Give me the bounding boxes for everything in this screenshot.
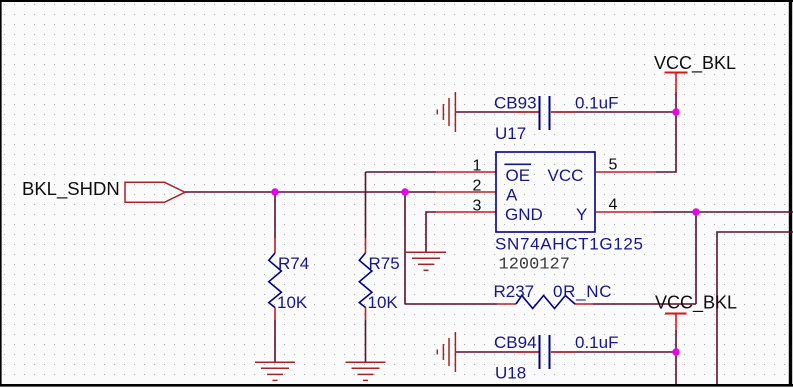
capacitor CB93 pins	[516, 111, 576, 113]
sheet border bottom	[0, 384, 793, 387]
pin 5	[596, 171, 656, 173]
svg-text:2: 2	[473, 178, 482, 195]
svg-text:4: 4	[609, 197, 618, 214]
svg-text:R237: R237	[494, 282, 535, 301]
junction node VCC/CB93	[672, 108, 679, 115]
resistor R75	[359, 253, 399, 312]
svg-text:1200127: 1200127	[499, 256, 570, 275]
wire R74 bottom	[274, 320, 276, 362]
svg-text:VCC_BKL: VCC_BKL	[654, 53, 736, 74]
wire CB94 right	[551, 351, 676, 353]
resistor R237 pins	[497, 303, 593, 305]
svg-text:OE: OE	[506, 166, 531, 185]
svg-text:0R_NC: 0R_NC	[553, 282, 612, 301]
resistor R74 pins	[274, 238, 276, 320]
capacitor CB94 pins	[516, 351, 576, 353]
ground at pin3	[406, 252, 446, 270]
pin 3	[436, 211, 496, 213]
svg-text:5: 5	[609, 157, 618, 174]
wire pin5 to VCC	[656, 92, 676, 172]
junction node Y/R237	[692, 208, 699, 215]
wire node drop to R237	[404, 192, 406, 304]
svg-text:SN74AHCT1G125: SN74AHCT1G125	[495, 235, 644, 254]
junction node BKL_SHDN/R74	[271, 188, 278, 195]
ground under R75	[346, 362, 386, 380]
svg-text:10K: 10K	[368, 293, 399, 312]
wire VCC_BKL bottom drop	[675, 330, 677, 384]
svg-text:10K: 10K	[277, 293, 308, 312]
wire R74 drop	[274, 192, 276, 238]
svg-text:U18: U18	[495, 364, 526, 383]
svg-text:VCC_BKL: VCC_BKL	[655, 293, 737, 314]
junction node BKL_SHDN/R237	[401, 188, 408, 195]
wire right L-shape	[717, 232, 793, 384]
resistor R75 pins	[365, 238, 367, 320]
wire pin1 horizontal	[366, 171, 437, 173]
resistor R237	[494, 282, 613, 309]
svg-text:CB94: CB94	[494, 333, 537, 352]
wire pin3 to ground	[426, 212, 436, 252]
wire CB93 left	[456, 111, 539, 113]
pin 1	[436, 171, 496, 173]
ground left of CB94	[437, 332, 455, 372]
svg-text:CB93: CB93	[494, 94, 537, 113]
svg-text:R75: R75	[369, 254, 400, 273]
power port VCC_BKL top	[654, 53, 736, 92]
svg-text:A: A	[506, 186, 518, 205]
junction node VCC_BKL/CB94	[672, 348, 679, 355]
op IC U? SN74AHCT1G125 body	[495, 152, 644, 275]
svg-text:1: 1	[473, 158, 482, 175]
capacitor CB94	[494, 333, 618, 383]
power port VCC_BKL bottom	[655, 293, 737, 331]
svg-text:BKL_SHDN: BKL_SHDN	[22, 178, 120, 200]
ground under R74	[255, 362, 295, 380]
sheet border left	[0, 0, 2, 386]
svg-text:0.1uF: 0.1uF	[575, 94, 618, 113]
svg-text:Y: Y	[576, 205, 587, 224]
resistor R74	[269, 253, 309, 312]
pin 4	[596, 211, 653, 213]
wire R237 left	[405, 303, 497, 305]
svg-text:R74: R74	[278, 254, 309, 273]
wire Y riser	[695, 212, 697, 304]
ground left of CB93	[437, 92, 455, 132]
svg-text:3: 3	[473, 198, 482, 215]
wire net BKL_SHDN horizontal	[185, 191, 436, 193]
wire R237 right	[593, 303, 696, 305]
wire CB93 right	[551, 111, 676, 113]
wire CB94 left	[456, 351, 539, 353]
capacitor CB93	[494, 94, 618, 144]
svg-text:U17: U17	[495, 124, 526, 143]
svg-text:0.1uF: 0.1uF	[575, 333, 618, 352]
wire R75 bottom	[365, 320, 367, 362]
sheet border right	[789, 0, 792, 386]
wire Y output horizontal	[653, 211, 793, 213]
svg-text:VCC: VCC	[548, 166, 584, 185]
svg-text:GND: GND	[505, 205, 543, 224]
wire R75 to pin1 vertical	[365, 172, 367, 238]
sheet border top	[0, 0, 793, 2]
port BKL_SHDN	[22, 178, 185, 202]
pin 2	[436, 191, 496, 193]
